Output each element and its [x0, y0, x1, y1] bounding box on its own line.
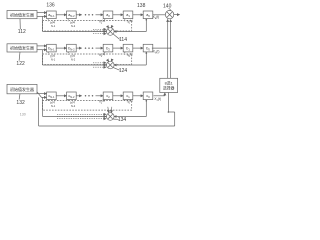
leader line 122	[18, 52, 21, 61]
load line 1 row c	[37, 93, 47, 95]
wire register chain row b	[56, 47, 66, 49]
tap arrows into adder top row b	[108, 60, 109, 61]
feedback wire row b from register b0 to adder	[145, 52, 147, 65]
feedback wire row a from register a0 to adder	[145, 19, 147, 32]
load line 1 row a	[37, 12, 47, 14]
shift register b0 row b	[143, 44, 153, 52]
shift register c0 row c	[143, 92, 153, 100]
wire jog down	[174, 112, 176, 126]
load line 2 row c (slanted from init box)	[37, 92, 47, 98]
wire row a to dots	[76, 14, 82, 16]
dashed mask input arrows into adder row c	[57, 113, 106, 115]
ellipsis dots row c	[85, 95, 87, 97]
svg-text:(t): (t)	[156, 50, 159, 54]
wire row b to dots	[76, 47, 82, 49]
leader line 132	[18, 94, 21, 100]
wire dots to register row c	[96, 95, 104, 97]
wire X_c(t) right	[154, 95, 165, 97]
wire jog right	[168, 111, 174, 113]
wire register chain row c	[56, 95, 66, 97]
wire dots to register row a	[96, 14, 104, 16]
svg-text:初始值发生器: 初始值发生器	[10, 11, 34, 17]
leader line 124	[113, 68, 119, 71]
wire register chain row a	[56, 14, 66, 16]
ellipsis dots row b	[85, 47, 87, 49]
left riser wire to row c input	[38, 97, 40, 126]
output arrow from multiplier	[174, 14, 180, 16]
shift register cN-1 row c	[47, 92, 57, 100]
shift register a1 row a	[123, 11, 133, 19]
wire X_c(t) up into selector	[164, 93, 166, 96]
selector bottom wire down	[167, 93, 169, 113]
feedback return wire row a to first register input	[43, 31, 107, 33]
wire dots to register row b	[96, 47, 104, 49]
shift register bN-2 row b	[67, 44, 77, 52]
svg-text:140: 140	[163, 4, 172, 10]
dashed mask input arrows into adder row b	[93, 62, 106, 64]
dashed mask coefficient box row c	[42, 101, 131, 111]
shift register c2 row c	[103, 92, 113, 100]
svg-text:N-2: N-2	[71, 104, 76, 108]
ellipsis dots row a	[85, 14, 87, 16]
tap arrows into adder top row a	[108, 27, 109, 28]
svg-text:N-2: N-2	[71, 24, 76, 28]
shift register c1 row c	[123, 92, 133, 100]
leader line 134	[113, 118, 118, 120]
shift register a0 row a	[143, 11, 153, 19]
wire row c to dots	[76, 95, 82, 97]
shift register bN-1 row b	[47, 44, 57, 52]
multiplier circle 140	[165, 10, 173, 18]
leader line 140	[169, 9, 171, 11]
dashed tap lines row c	[47, 100, 49, 102]
shift register b2 row b	[103, 44, 113, 52]
wire register chain row a	[113, 14, 123, 16]
svg-text:132: 132	[16, 100, 25, 106]
wire register chain row c	[113, 95, 123, 97]
dashed tap lines row a	[47, 19, 49, 22]
modulo-2 adder circle row b (124)	[107, 61, 115, 69]
wire X_b(t) to selector vertical	[152, 47, 171, 49]
wire register chain row a	[133, 14, 143, 16]
load line 1 row b	[37, 45, 47, 47]
svg-text:138: 138	[137, 3, 146, 9]
load line 2 row b	[37, 49, 47, 51]
svg-text:初始值发生器: 初始值发生器	[10, 86, 34, 92]
dashed mask coefficient box row a	[42, 21, 131, 32]
svg-text:初始值发生器: 初始值发生器	[10, 45, 34, 51]
selector box (8-to-1 selector)	[160, 78, 178, 92]
shift register a2 row a	[103, 11, 113, 19]
svg-text:124: 124	[119, 68, 128, 74]
wire register chain row b	[133, 47, 143, 49]
svg-text:(t): (t)	[156, 15, 159, 19]
dashed mask input arrows into adder row a	[93, 28, 106, 30]
dashed tap lines row b	[47, 52, 49, 55]
wire register chain row b	[113, 47, 123, 49]
svg-text:N-1: N-1	[51, 104, 56, 108]
initial value generator box row a	[7, 11, 37, 19]
tap arrows into adder top row c	[108, 107, 109, 113]
svg-text:N-1: N-1	[51, 57, 56, 61]
shift register cN-2 row c	[67, 92, 77, 100]
feedback return wire row c to first register input	[43, 116, 107, 118]
leader line 114	[113, 34, 119, 39]
wire register chain row c	[133, 95, 143, 97]
svg-text:136: 136	[46, 2, 55, 8]
wire X_a(t) to multiplier	[153, 14, 166, 16]
leader line 112	[19, 19, 21, 29]
selector output wires up into multiplier	[167, 19, 169, 78]
modulo-2 adder circle row a (114)	[107, 28, 115, 36]
load line 2 row a	[37, 15, 47, 17]
shift register b1 row b	[123, 44, 133, 52]
initial value generator box row c	[7, 84, 37, 93]
initial value generator box row b	[7, 44, 37, 52]
modulo-2 adder circle row c (134)	[107, 113, 115, 121]
svg-text:134: 134	[118, 117, 127, 123]
bottom bus wire	[39, 125, 175, 127]
feedback wire row c from register c0 to adder	[145, 100, 147, 117]
dashed mask coefficient box row b	[42, 54, 131, 65]
svg-text:N-2: N-2	[71, 57, 76, 61]
svg-text:130: 130	[20, 112, 26, 116]
shift register aN-2 row a	[67, 11, 77, 19]
shift register aN-1 row a	[47, 11, 57, 19]
svg-text:(t): (t)	[158, 97, 161, 101]
svg-text:122: 122	[16, 61, 25, 67]
feedback return wire row b to first register input	[43, 64, 107, 66]
svg-text:N-1: N-1	[51, 24, 56, 28]
svg-text:选择器: 选择器	[163, 86, 175, 91]
svg-text:114: 114	[119, 37, 127, 43]
svg-text:112: 112	[18, 29, 26, 35]
svg-text:8选1: 8选1	[165, 80, 173, 85]
